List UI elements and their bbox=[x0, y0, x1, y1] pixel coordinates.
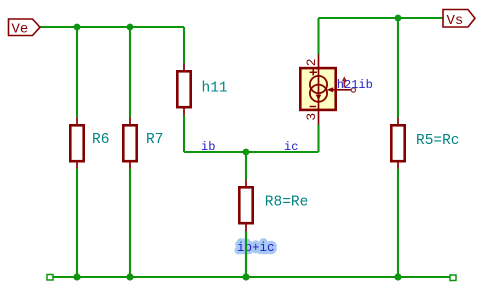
node junction bottom-R5 bbox=[394, 273, 401, 280]
svg-text:R8=Re: R8=Re bbox=[265, 195, 309, 211]
wire mid rail ib-ic bbox=[184, 151, 319, 153]
svg-text:3: 3 bbox=[304, 113, 319, 121]
svg-text:ib: ib bbox=[201, 140, 215, 154]
node junction bottom-R8 bbox=[242, 273, 249, 280]
resistor R6 bbox=[70, 118, 109, 169]
current direction arrow near h21ib bbox=[342, 76, 347, 87]
wire R7 top vertical bbox=[129, 27, 131, 118]
wire R8 bottom vertical bbox=[245, 232, 247, 278]
wire R5 top vertical bbox=[397, 18, 399, 118]
wire R8 top vertical bbox=[245, 152, 247, 180]
wire bottom rail bbox=[53, 276, 450, 278]
minus sign bbox=[310, 106, 317, 108]
resistor R7 bbox=[123, 118, 163, 169]
wire R7 bottom vertical bbox=[129, 169, 131, 278]
wire over label bbox=[245, 232, 247, 278]
svg-text:h11: h11 bbox=[202, 81, 228, 97]
field pointer line to h21ib bbox=[327, 87, 356, 92]
wire R5 bottom vertical bbox=[397, 169, 399, 278]
current source arrow head bbox=[316, 95, 322, 100]
node junction mid-R8 bbox=[243, 149, 250, 156]
net label ib+ic highlighted bbox=[237, 232, 275, 278]
node junction bottom-R7 bbox=[126, 273, 133, 280]
hierarchical label Ve bbox=[9, 19, 41, 38]
node junction Vs-R5 bbox=[395, 15, 402, 22]
resistor R8 bbox=[239, 180, 308, 232]
svg-text:R5=Rc: R5=Rc bbox=[416, 133, 460, 149]
resistor h11 bbox=[177, 64, 227, 116]
svg-text:R6: R6 bbox=[92, 132, 109, 148]
svg-text:R7: R7 bbox=[146, 132, 163, 148]
wire Vs top rail bbox=[319, 17, 444, 19]
wire source bottom vertical bbox=[317, 125, 319, 153]
resistor R5 bbox=[391, 118, 459, 169]
wire Ve top rail bbox=[40, 26, 184, 28]
current source U1 body bbox=[300, 55, 335, 125]
svg-text:ic: ic bbox=[284, 140, 298, 154]
wire source top vertical bbox=[317, 18, 319, 55]
node junction bottom-R6 bbox=[73, 273, 80, 280]
node junction Ve-R7 bbox=[127, 24, 134, 31]
plus sign bbox=[310, 69, 317, 76]
wire end square right bbox=[450, 275, 456, 281]
svg-text:Vs: Vs bbox=[447, 13, 464, 29]
svg-text:2: 2 bbox=[304, 58, 319, 66]
wire h11 bottom vertical bbox=[183, 116, 185, 153]
wire R6 top vertical bbox=[76, 27, 78, 118]
current source arrow shaft bbox=[318, 55, 320, 125]
current source circles bbox=[310, 76, 327, 93]
node junction Ve-R6 bbox=[74, 24, 81, 31]
hierarchical label Vs bbox=[443, 10, 475, 30]
svg-text:ib+ic: ib+ic bbox=[237, 241, 275, 255]
svg-text:Ve: Ve bbox=[12, 22, 29, 38]
wire h11 top vertical bbox=[183, 27, 185, 64]
wire end square left bbox=[47, 275, 53, 281]
wire R6 bottom vertical bbox=[76, 169, 78, 278]
svg-text:h21ib: h21ib bbox=[337, 78, 373, 92]
